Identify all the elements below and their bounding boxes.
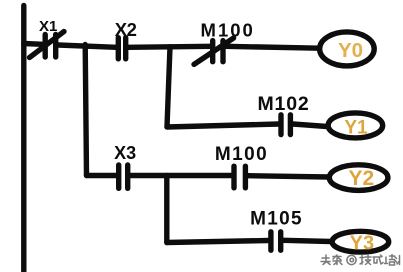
svg-text:M100: M100 xyxy=(201,19,255,40)
svg-text:X1: X1 xyxy=(39,18,57,35)
svg-text:Y0: Y0 xyxy=(338,39,363,62)
svg-text:M105: M105 xyxy=(250,209,303,230)
svg-text:Y2: Y2 xyxy=(349,167,375,190)
svg-text:M102: M102 xyxy=(258,93,310,115)
svg-text:M100: M100 xyxy=(215,144,268,165)
svg-text:Y1: Y1 xyxy=(344,118,368,139)
svg-text:X3: X3 xyxy=(114,143,136,163)
svg-text:X2: X2 xyxy=(115,19,137,40)
svg-text:Y3: Y3 xyxy=(350,233,374,255)
